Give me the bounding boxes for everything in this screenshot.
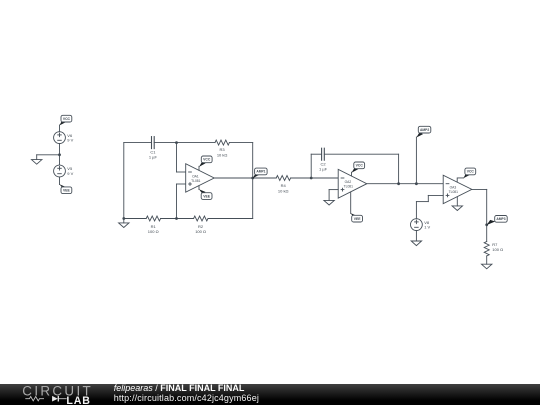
svg-text:TL081: TL081 <box>449 190 459 194</box>
wire non-inverting input branch <box>177 184 186 219</box>
svg-text:R3: R3 <box>220 147 226 152</box>
wire inverting input branch <box>177 143 186 172</box>
wire R7 to ground <box>486 256 488 264</box>
svg-text:R2: R2 <box>198 224 204 229</box>
ground stage1 <box>119 219 129 228</box>
AMP1 flag <box>253 168 267 178</box>
wire V6 bottom to V5 top <box>59 144 61 166</box>
svg-text:VCC: VCC <box>356 164 364 168</box>
svg-text:OA3: OA3 <box>450 186 457 190</box>
svg-text:VEE: VEE <box>354 217 362 221</box>
wire V8 to ground <box>415 231 417 242</box>
voltage source V6 9V <box>54 132 74 144</box>
wire stage1 top left <box>124 142 152 144</box>
wire stage1 top right <box>229 142 252 144</box>
node feedback2 left junction <box>310 177 313 180</box>
wire feedback2 top right <box>324 153 398 155</box>
op-amp OA2 TL081 <box>338 169 367 198</box>
svg-text:VCC: VCC <box>203 158 211 162</box>
wire junction to ground <box>37 154 60 156</box>
ground V8 <box>411 241 421 246</box>
svg-text:9 V: 9 V <box>67 171 73 176</box>
svg-text:AMP1: AMP1 <box>256 170 265 174</box>
svg-text:VCC: VCC <box>467 170 475 174</box>
node stage1 top junction <box>175 141 178 144</box>
wire R2 right <box>208 218 253 220</box>
svg-text:VCC: VCC <box>63 117 71 121</box>
svg-text:100 Ω: 100 Ω <box>148 229 159 234</box>
wire between R1 and R2 <box>161 218 194 220</box>
svg-text:OA1: OA1 <box>192 174 199 178</box>
wire stage1 left vertical <box>123 143 125 219</box>
svg-text:AMP2: AMP2 <box>420 128 429 132</box>
wire stage1 right vertical <box>252 143 254 219</box>
svg-text:100 Ω: 100 Ω <box>492 247 503 252</box>
svg-text:LAB: LAB <box>66 395 90 405</box>
wire feedback2 top left <box>311 153 321 155</box>
VCC flag OA1 <box>199 156 212 170</box>
wire OA3 + input jog <box>416 195 443 218</box>
resistor R3 10k <box>215 140 229 157</box>
VEE flag OA1 <box>199 186 212 200</box>
svg-text:10 kΩ: 10 kΩ <box>278 188 289 193</box>
logo diode <box>52 396 58 402</box>
ground OA3 <box>452 206 462 211</box>
wire feedback2 right vertical <box>398 154 400 184</box>
resistor R1 100ohm <box>146 216 160 234</box>
wire OA3 output <box>472 189 487 241</box>
node OA1 output junction <box>251 177 254 180</box>
svg-text:AMP3: AMP3 <box>496 217 505 221</box>
AMP3 flag <box>487 216 508 226</box>
wire OA2 VEE pin <box>350 192 352 214</box>
ground OA2 + <box>324 200 334 205</box>
wire OA2 + input branch <box>329 190 338 201</box>
svg-text:10 kΩ: 10 kΩ <box>217 152 228 157</box>
capacitor C1 1uF <box>149 137 158 160</box>
svg-text:1 V: 1 V <box>424 225 430 230</box>
ground (supply) <box>32 155 42 164</box>
node feedback2 return junction <box>397 182 400 185</box>
footer bar <box>0 384 540 405</box>
wire OA3 VEE pin <box>456 197 458 206</box>
node AMP2 junction <box>415 182 418 185</box>
wire OA1 output <box>214 177 276 179</box>
svg-text:R1: R1 <box>151 224 157 229</box>
node stage1 bottom-left junction <box>122 217 125 220</box>
voltage source V5 9V <box>54 165 74 177</box>
svg-text:VEE: VEE <box>203 194 211 198</box>
node supply mid junction <box>58 153 61 156</box>
wire R1 row <box>124 218 146 220</box>
VCC flag (supply) <box>60 115 72 131</box>
svg-text:OA2: OA2 <box>345 180 352 184</box>
svg-text:TL081: TL081 <box>191 179 201 183</box>
node AMP3 junction <box>485 223 488 226</box>
svg-text:100 Ω: 100 Ω <box>195 229 206 234</box>
wire V5 bottom stub <box>59 177 61 185</box>
node stage1 bottom mid junction <box>175 217 178 220</box>
voltage source V8 1V <box>411 219 431 231</box>
VCC flag OA3 <box>457 168 475 182</box>
resistor R4 10k <box>276 176 290 194</box>
footer title text <box>114 384 259 403</box>
svg-text:R7: R7 <box>492 242 498 247</box>
svg-text:1 µF: 1 µF <box>319 166 328 171</box>
VEE flag (supply) <box>60 184 72 193</box>
svg-text:VEE: VEE <box>63 189 71 193</box>
logo waveform resistor <box>25 397 44 401</box>
AMP2 flag <box>416 126 430 137</box>
wire AMP2 stub <box>415 137 417 184</box>
wire stage1 top mid <box>154 142 215 144</box>
capacitor C2 1uF <box>319 148 328 171</box>
resistor R2 100ohm <box>194 216 208 234</box>
svg-text:9 V: 9 V <box>67 138 73 143</box>
svg-text:TL081: TL081 <box>344 185 354 189</box>
VCC flag OA2 <box>352 162 365 176</box>
svg-text:R4: R4 <box>281 183 287 188</box>
wire OA2 output to OA3 <box>367 183 443 185</box>
op-amp OA3 TL081 <box>443 175 472 204</box>
svg-text:1 µF: 1 µF <box>149 154 158 159</box>
VEE flag OA2 <box>351 213 363 222</box>
ground R7 <box>482 264 492 269</box>
wire feedback2 left vertical <box>310 154 312 178</box>
op-amp OA1 TL081 <box>186 164 215 193</box>
resistor R7 100ohm vertical <box>484 242 503 256</box>
wire R4 to OA2 <box>291 177 339 179</box>
